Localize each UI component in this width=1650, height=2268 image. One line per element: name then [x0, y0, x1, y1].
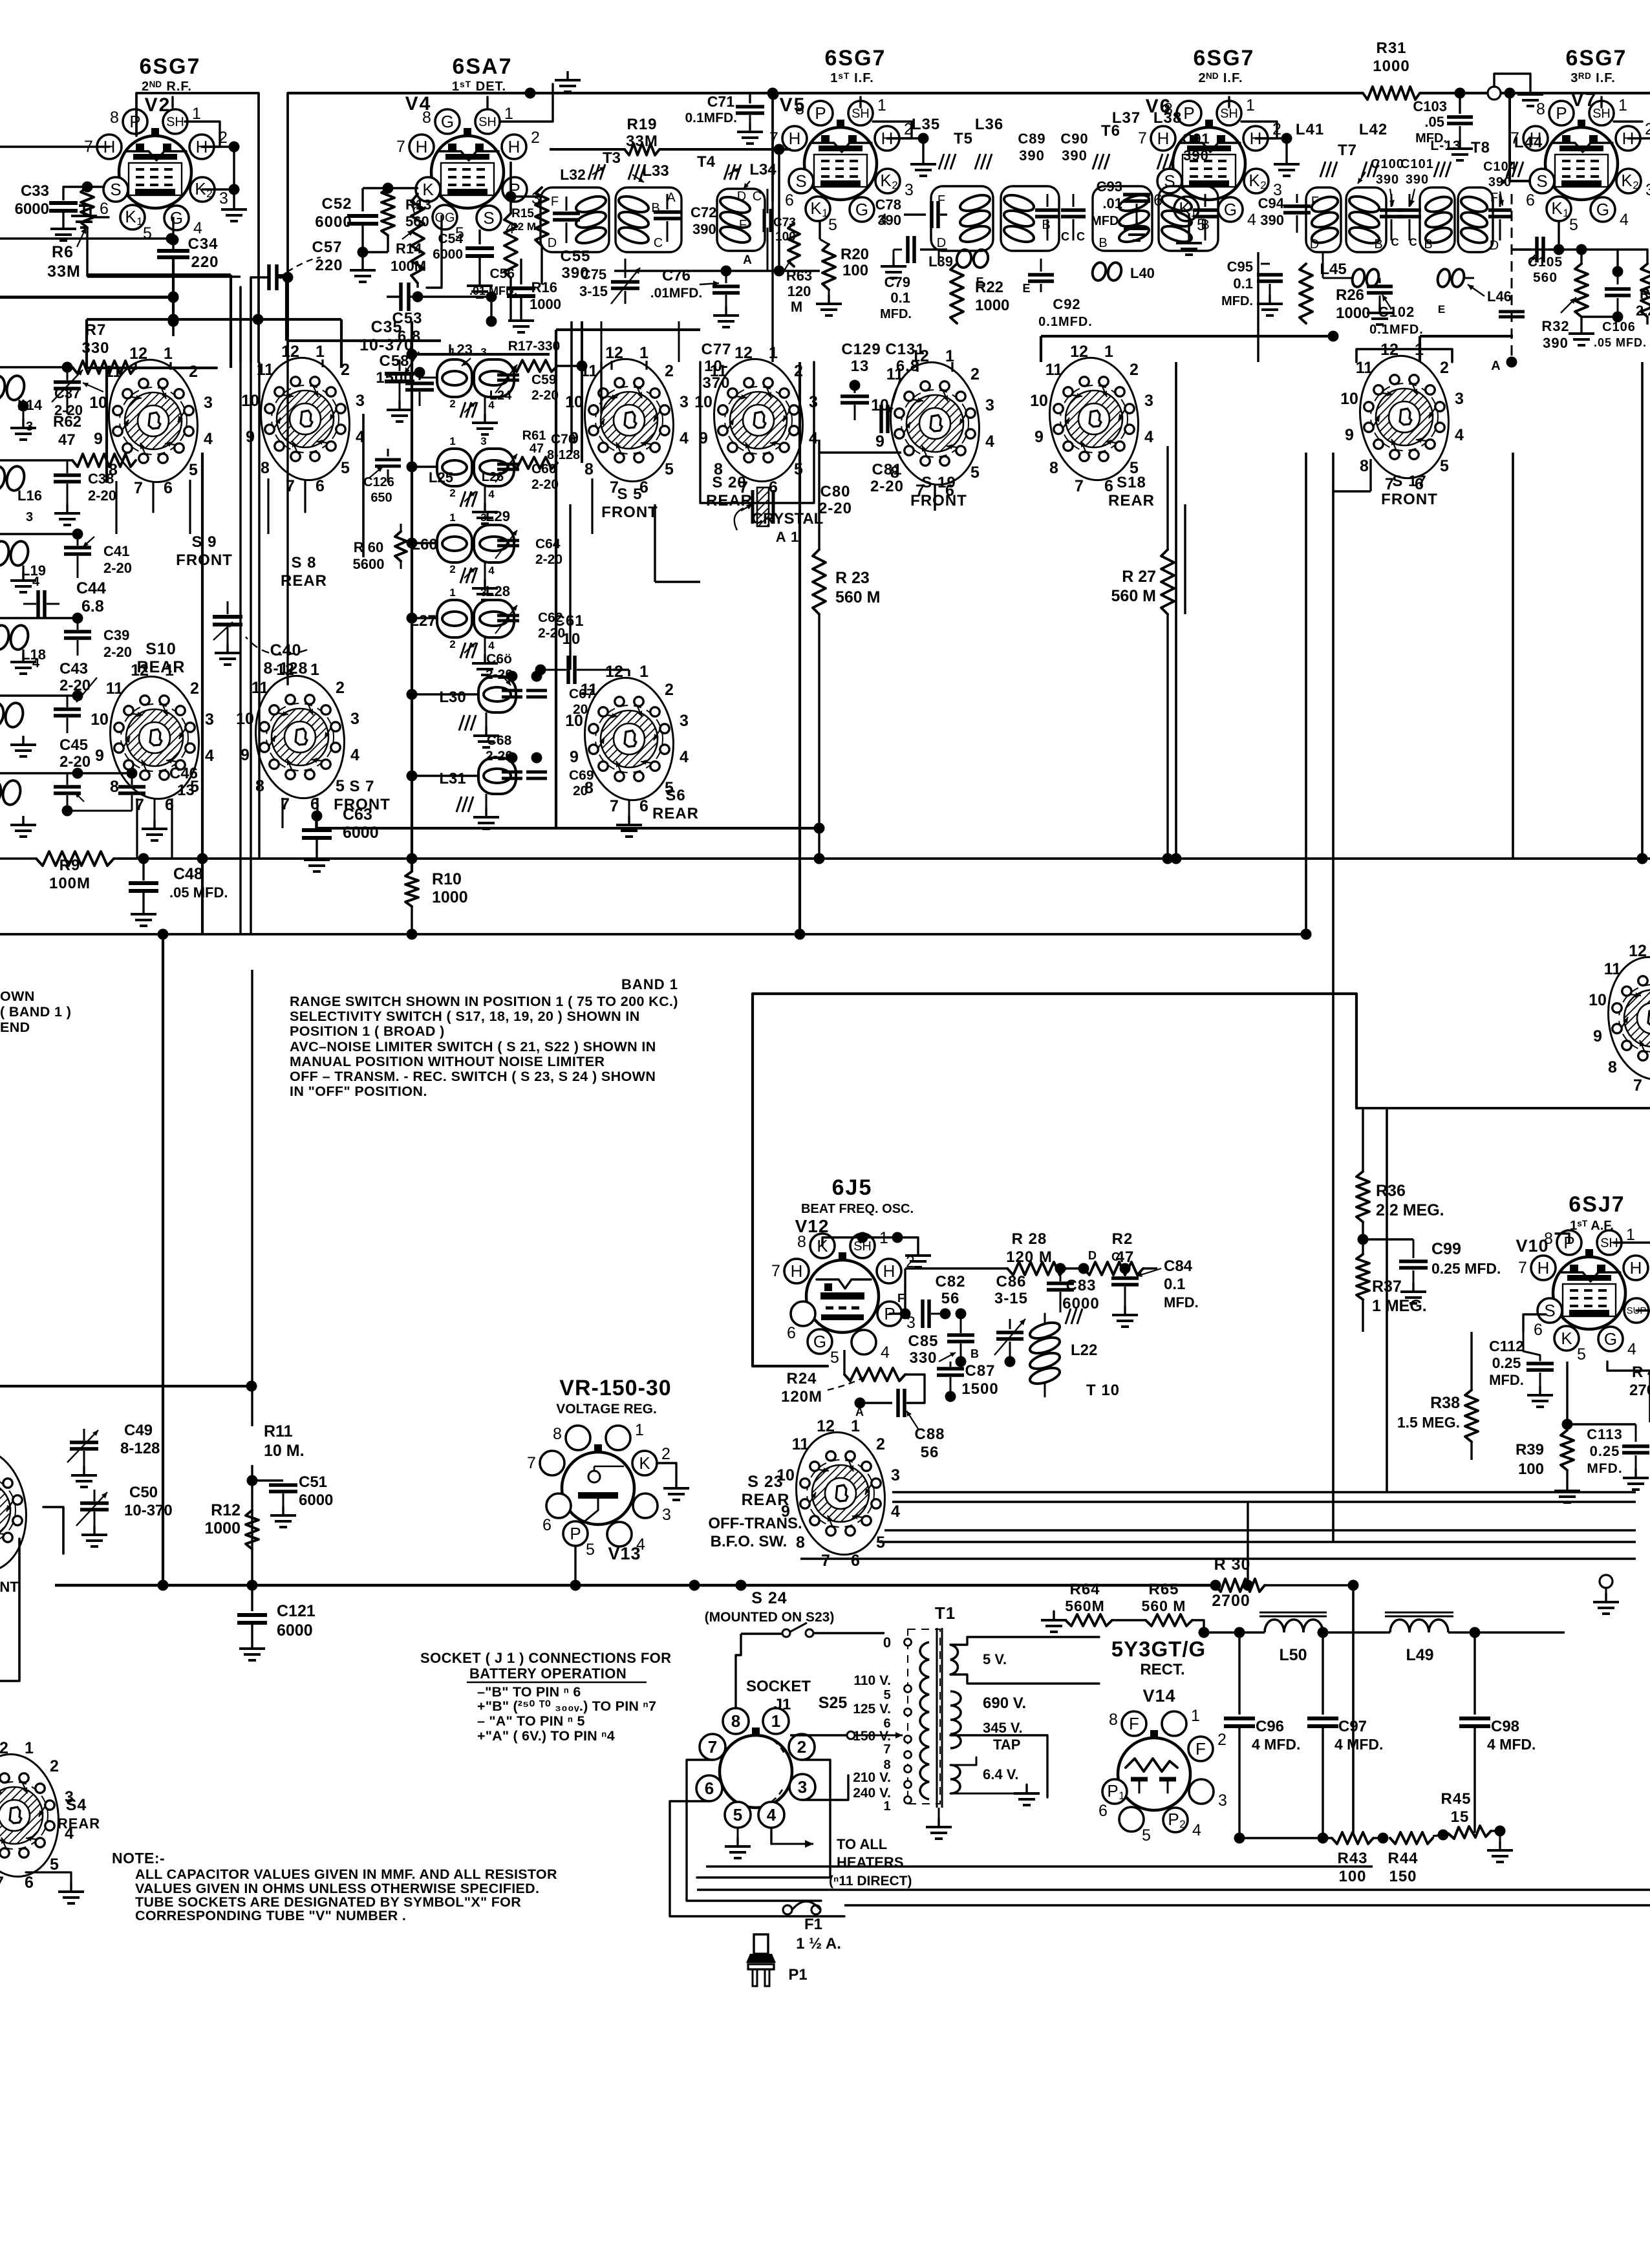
svg-text:S 5: S 5 — [617, 486, 642, 503]
svg-text:5: 5 — [665, 460, 674, 478]
svg-text:C80: C80 — [820, 483, 850, 500]
svg-text:390: 390 — [1543, 335, 1569, 351]
svg-text:1: 1 — [1104, 343, 1113, 361]
svg-text:FRONT: FRONT — [176, 551, 233, 569]
svg-text:L35: L35 — [912, 116, 940, 133]
svg-text:11: 11 — [106, 679, 123, 698]
svg-text:MFD.: MFD. — [1164, 1294, 1199, 1311]
capacitor C100 sym — [1391, 194, 1393, 207]
svg-text:R65: R65 — [1148, 1581, 1179, 1598]
svg-text:L28: L28 — [486, 583, 510, 599]
svg-text:5: 5 — [1142, 1826, 1151, 1845]
svg-text:A: A — [855, 1406, 864, 1418]
svg-text:2: 2 — [50, 1757, 59, 1775]
svg-text:9: 9 — [95, 747, 104, 765]
svg-text:560 M: 560 M — [1142, 1598, 1186, 1614]
svg-text:.05: .05 — [1424, 114, 1444, 130]
svg-text:MANUAL POSITION WITHOUT NOI: MANUAL POSITION WITHOUT NOISE LIMITER — [290, 1054, 605, 1069]
svg-text:OFF-TRANS.: OFF-TRANS. — [708, 1515, 802, 1532]
svg-text:BAND 1: BAND 1 — [621, 976, 678, 992]
svg-text:C106: C106 — [1602, 320, 1636, 334]
svg-text:1: 1 — [639, 344, 648, 362]
svg-text:F: F — [1311, 195, 1319, 209]
svg-text:3: 3 — [480, 435, 486, 447]
wire S18 drop — [1093, 481, 1095, 511]
svg-text:2: 2 — [449, 487, 455, 499]
svg-text:C50: C50 — [129, 1484, 158, 1501]
wire x2062 lower — [1332, 1492, 1334, 1542]
svg-text:H: H — [416, 137, 428, 156]
svg-text:F: F — [551, 195, 559, 209]
transformer L25 L26 pair — [437, 449, 472, 486]
svg-text:S 23: S 23 — [747, 1473, 783, 1491]
svg-text:FRONT: FRONT — [910, 492, 967, 509]
svg-text:REAR: REAR — [1108, 492, 1155, 509]
svg-text:1: 1 — [136, 215, 142, 228]
svg-text:V13: V13 — [608, 1544, 641, 1563]
svg-text:560M: 560M — [1065, 1598, 1105, 1614]
svg-text:C33: C33 — [21, 182, 49, 200]
coil C43 trim — [0, 701, 6, 729]
svg-text:4: 4 — [32, 656, 40, 670]
svg-text:C63: C63 — [343, 806, 372, 824]
wire wafer stubs S8 — [286, 359, 288, 367]
svg-text:6: 6 — [1526, 191, 1535, 209]
svg-text:C: C — [1077, 230, 1086, 243]
svg-text:C91: C91 — [1182, 131, 1210, 147]
svg-text:L42: L42 — [1359, 121, 1387, 138]
svg-text:H: H — [791, 1261, 803, 1281]
svg-text:5: 5 — [883, 1688, 890, 1702]
svg-text:56: 56 — [941, 1290, 960, 1307]
svg-text:6000: 6000 — [277, 1621, 313, 1640]
svg-text:C48: C48 — [173, 865, 203, 883]
wire H7 left — [0, 145, 109, 147]
transformer T4 box — [717, 189, 765, 251]
svg-text:ALL CAPACITOR VALUES GIVEN IN: ALL CAPACITOR VALUES GIVEN IN MMF. AND A… — [135, 1867, 557, 1882]
dashed line A — [1511, 194, 1513, 359]
svg-text:4: 4 — [488, 488, 495, 500]
svg-text:D: D — [1088, 1249, 1097, 1262]
svg-text:K: K — [1248, 171, 1260, 190]
svg-text:2-20: 2-20 — [870, 478, 904, 495]
svg-text:47: 47 — [530, 442, 544, 456]
svg-text:120M: 120M — [781, 1388, 822, 1406]
wire top area verticals — [600, 362, 602, 414]
svg-text:2: 2 — [531, 129, 540, 147]
svg-text:F: F — [897, 1292, 905, 1305]
svg-text:L37: L37 — [1112, 109, 1141, 127]
svg-text:B: B — [1042, 218, 1050, 232]
transformer L23 L24 pair — [437, 359, 472, 397]
svg-text:2: 2 — [1633, 179, 1638, 191]
svg-text:4: 4 — [985, 433, 994, 451]
svg-text:R19: R19 — [627, 116, 657, 133]
svg-text:C: C — [753, 189, 762, 204]
svg-text:5600: 5600 — [353, 556, 385, 572]
svg-text:0.1: 0.1 — [1164, 1276, 1185, 1293]
svg-text:2-20: 2-20 — [535, 552, 562, 567]
svg-text:V5: V5 — [780, 94, 806, 116]
svg-text:K: K — [1621, 171, 1633, 190]
wire mesh i — [1420, 335, 1513, 337]
transformer T6b box — [1159, 186, 1218, 251]
ground L14 — [18, 401, 29, 412]
svg-text:R 28: R 28 — [1012, 1230, 1047, 1248]
svg-text:V12: V12 — [795, 1216, 830, 1236]
svg-text:6: 6 — [25, 1874, 34, 1892]
wire vertical V2-V4 group — [232, 321, 233, 854]
wire wafer stubs S7 — [281, 798, 283, 828]
svg-text:L16: L16 — [17, 487, 42, 504]
bus line lower — [0, 933, 1306, 936]
wire K1 gnd — [91, 206, 109, 217]
svg-text:F: F — [1195, 1739, 1206, 1759]
svg-text:20: 20 — [573, 784, 588, 798]
ground circle right — [1600, 1575, 1612, 1588]
svg-text:560 M: 560 M — [1111, 587, 1156, 605]
resistor R33 — [1641, 264, 1650, 317]
T1 sec 6.4V — [950, 1765, 960, 1793]
svg-text:10-370: 10-370 — [359, 336, 414, 354]
svg-text:6SA7: 6SA7 — [452, 54, 512, 79]
svg-text:11: 11 — [1045, 361, 1063, 379]
svg-text:5: 5 — [828, 216, 837, 234]
svg-text:2-20: 2-20 — [538, 626, 565, 641]
ground top right — [1494, 74, 1530, 87]
svg-text:5: 5 — [586, 1541, 595, 1559]
ground S4 — [26, 1872, 71, 1883]
svg-text:C81: C81 — [872, 461, 902, 478]
transformer T5 box — [931, 186, 993, 251]
svg-text:C100: C100 — [1371, 157, 1404, 171]
bus S23 wires — [892, 1491, 1636, 1493]
svg-text:0.1MFD.: 0.1MFD. — [685, 111, 737, 125]
svg-text:D: D — [548, 236, 557, 250]
svg-text:3: 3 — [219, 189, 228, 208]
svg-text:9: 9 — [1345, 426, 1354, 444]
wire V4 SH gnd — [486, 97, 488, 107]
svg-text:S: S — [110, 180, 121, 199]
svg-text:6: 6 — [785, 191, 794, 209]
wire band verticals — [201, 453, 204, 934]
svg-text:0.1: 0.1 — [890, 290, 910, 306]
wire mesh c — [87, 318, 258, 321]
svg-text:6.8: 6.8 — [896, 358, 919, 375]
svg-text:8: 8 — [1536, 100, 1545, 118]
svg-text:F: F — [1129, 1714, 1139, 1733]
svg-text:VOLTAGE REG.: VOLTAGE REG. — [556, 1402, 657, 1417]
svg-text:9: 9 — [241, 746, 250, 764]
capacitor C55 in T3 — [566, 197, 568, 211]
wire S23 to V13 bus — [252, 1585, 575, 1586]
svg-text:2-20: 2-20 — [531, 388, 559, 403]
svg-text:C83: C83 — [1066, 1277, 1096, 1294]
wire S9 frame — [107, 368, 217, 482]
svg-text:H: H — [789, 129, 801, 148]
svg-text:7: 7 — [1138, 129, 1147, 147]
wire mesh f — [412, 353, 550, 356]
svg-text:B: B — [1098, 236, 1107, 250]
svg-text:4 MFD.: 4 MFD. — [1487, 1736, 1536, 1753]
svg-text:V4: V4 — [405, 93, 432, 114]
svg-text:7: 7 — [0, 1874, 4, 1892]
svg-text:R39: R39 — [1516, 1441, 1544, 1459]
svg-text:3ᴿᴰ I.F.: 3ᴿᴰ I.F. — [1570, 71, 1616, 85]
svg-text:1: 1 — [883, 1799, 890, 1813]
svg-text:1: 1 — [851, 1417, 860, 1435]
svg-text:10: 10 — [565, 393, 583, 411]
wire R11 bot — [251, 1465, 253, 1585]
svg-text:R10: R10 — [432, 870, 462, 888]
svg-text:12: 12 — [1070, 343, 1088, 361]
T1 sec 5V — [950, 1645, 958, 1674]
svg-text:R6: R6 — [52, 243, 74, 261]
wire wafer stubs S10 — [136, 798, 138, 859]
svg-text:C92: C92 — [1053, 296, 1080, 312]
svg-text:G: G — [1224, 200, 1237, 219]
svg-text:R64: R64 — [1069, 1581, 1100, 1598]
svg-text:1000: 1000 — [204, 1519, 241, 1537]
svg-text:R17-330: R17-330 — [508, 339, 561, 354]
wire V6 H2 gnd — [1256, 137, 1287, 139]
svg-text:3: 3 — [1144, 392, 1153, 410]
svg-text:6: 6 — [705, 1779, 714, 1798]
svg-text:P: P — [570, 1524, 581, 1543]
svg-text:C104: C104 — [1483, 160, 1517, 174]
wire V2 H2 to gnd — [202, 145, 234, 147]
svg-text:1000: 1000 — [1336, 305, 1370, 322]
capacitor C97 — [1322, 1632, 1323, 1715]
svg-text:P1: P1 — [788, 1966, 807, 1984]
svg-text:330: 330 — [909, 1349, 937, 1367]
svg-text:R16: R16 — [531, 279, 557, 295]
svg-text:4 MFD.: 4 MFD. — [1252, 1736, 1300, 1753]
svg-text:12: 12 — [276, 661, 294, 679]
resistor R6 — [81, 187, 94, 228]
svg-text:C78: C78 — [875, 197, 901, 213]
svg-text:B: B — [1424, 237, 1432, 251]
svg-text:2: 2 — [189, 363, 198, 381]
svg-text:2: 2 — [1440, 359, 1449, 377]
svg-text:7: 7 — [527, 1454, 536, 1472]
svg-text:V2: V2 — [145, 94, 171, 116]
svg-text:5: 5 — [336, 777, 345, 795]
svg-text:6: 6 — [851, 1552, 860, 1570]
svg-text:C40: C40 — [270, 641, 302, 659]
wire V12 top — [822, 1237, 897, 1246]
svg-text:C45: C45 — [59, 736, 88, 754]
svg-text:H: H — [508, 137, 520, 156]
svg-text:T7: T7 — [1338, 142, 1357, 159]
svg-text:1: 1 — [1119, 1790, 1124, 1802]
switch S6 — [578, 672, 680, 805]
svg-text:C82: C82 — [935, 1273, 965, 1290]
svg-text:345 V.: 345 V. — [983, 1720, 1023, 1736]
svg-text:12: 12 — [605, 344, 623, 362]
wire J1 pin1-s25 — [789, 1730, 790, 1735]
socket J1 pins — [723, 1708, 749, 1734]
svg-text:C59: C59 — [531, 372, 557, 387]
svg-text:L25: L25 — [429, 469, 453, 486]
svg-text:P: P — [1168, 1810, 1179, 1829]
svg-text:P: P — [1183, 103, 1194, 123]
svg-text:1: 1 — [192, 105, 201, 123]
resistor R13 — [381, 188, 394, 235]
svg-text:560: 560 — [1533, 270, 1558, 285]
svg-text:7: 7 — [821, 1552, 830, 1570]
choke L50 — [1265, 1620, 1323, 1632]
svg-text:2: 2 — [665, 681, 674, 699]
svg-text:P: P — [1107, 1781, 1118, 1801]
svg-text:3: 3 — [350, 710, 359, 728]
svg-text:A: A — [743, 253, 752, 267]
svg-text:9: 9 — [1593, 1027, 1602, 1045]
svg-text:390: 390 — [1019, 147, 1045, 164]
svg-text:FRONT: FRONT — [1381, 491, 1438, 508]
switch S23 — [789, 1427, 892, 1559]
svg-text:8: 8 — [1360, 457, 1369, 475]
svg-text:R43: R43 — [1337, 1850, 1367, 1867]
svg-text:6.8: 6.8 — [81, 597, 104, 615]
svg-text:12: 12 — [1629, 942, 1647, 960]
transformer T7 box L41 — [1306, 187, 1341, 252]
svg-text:2: 2 — [665, 362, 674, 380]
svg-text:V14: V14 — [1142, 1686, 1175, 1706]
svg-text:0.25: 0.25 — [1590, 1443, 1620, 1459]
box T10 — [753, 994, 1356, 1366]
svg-text:100M: 100M — [391, 258, 426, 274]
wire column joins — [411, 321, 413, 872]
svg-text:5: 5 — [189, 461, 198, 479]
svg-text:.01: .01 — [1102, 195, 1122, 211]
svg-text:2: 2 — [892, 179, 897, 191]
svg-text:L34: L34 — [749, 161, 777, 178]
svg-text:G: G — [813, 1332, 826, 1351]
coil L31 unit — [478, 758, 516, 794]
svg-text:6000: 6000 — [433, 247, 463, 262]
tube V14 — [1118, 1738, 1190, 1810]
svg-text:R44: R44 — [1387, 1850, 1418, 1867]
svg-text:100M: 100M — [49, 875, 91, 892]
svg-text:1: 1 — [504, 105, 513, 123]
svg-text:9: 9 — [94, 430, 103, 448]
transformer T3 box L32 — [541, 187, 609, 252]
svg-text:L30: L30 — [439, 689, 466, 706]
svg-text:9: 9 — [875, 433, 884, 451]
svg-text:2ᴺᴰ I.F.: 2ᴺᴰ I.F. — [1198, 71, 1243, 85]
svg-text:C: C — [1061, 230, 1070, 243]
svg-text:0.25: 0.25 — [1492, 1354, 1521, 1371]
wire V10 SUP — [1636, 1309, 1650, 1311]
ground J1 pin5 — [737, 1828, 739, 1837]
coil L18 — [0, 623, 11, 651]
svg-text:4: 4 — [767, 1805, 777, 1824]
svg-text:12: 12 — [605, 663, 623, 681]
svg-text:1000: 1000 — [975, 297, 1009, 314]
svg-text:10-370: 10-370 — [124, 1502, 173, 1519]
svg-text:5 V.: 5 V. — [983, 1651, 1007, 1667]
wire mesh g — [556, 328, 700, 331]
capacitor C34 — [172, 240, 174, 249]
svg-text:SH: SH — [852, 107, 870, 121]
svg-text:H: H — [1630, 1258, 1642, 1278]
wire V10 top — [1556, 1234, 1569, 1243]
svg-text:1: 1 — [310, 661, 319, 679]
svg-text:SH: SH — [166, 115, 184, 129]
capacitor C72 — [667, 194, 669, 209]
wire V4 box left — [286, 93, 289, 362]
svg-text:R63: R63 — [786, 268, 812, 284]
svg-text:47: 47 — [58, 431, 76, 449]
svg-text:6: 6 — [164, 479, 173, 497]
tube V4 — [431, 136, 504, 208]
svg-text:2-20: 2-20 — [531, 477, 559, 492]
svg-text:10 M.: 10 M. — [264, 1442, 305, 1460]
svg-text:4: 4 — [193, 219, 202, 237]
wire V5 drop — [771, 93, 774, 200]
wire S5 bottom drops — [569, 504, 571, 670]
svg-text:8: 8 — [731, 1711, 740, 1731]
svg-text:1 MEG.: 1 MEG. — [1372, 1297, 1427, 1315]
svg-text:F1: F1 — [804, 1916, 822, 1933]
svg-text:AVC–NOISE LIMITER SWITCH (: AVC–NOISE LIMITER SWITCH ( S 21, S22 ) S… — [290, 1039, 656, 1054]
svg-text:SH: SH — [1220, 107, 1238, 121]
svg-text:6SG7: 6SG7 — [825, 46, 886, 70]
svg-text:HEATERS: HEATERS — [837, 1854, 904, 1870]
svg-text:C: C — [1391, 236, 1399, 248]
svg-text:BEAT FREQ. OSC.: BEAT FREQ. OSC. — [801, 1202, 914, 1216]
wire T5 bottoms — [938, 251, 940, 264]
svg-text:C37: C37 — [54, 385, 80, 401]
svg-text:5: 5 — [733, 1805, 742, 1824]
svg-text:1: 1 — [1191, 1707, 1200, 1725]
svg-text:1.5 MEG.: 1.5 MEG. — [1397, 1414, 1460, 1431]
svg-text:3: 3 — [480, 346, 486, 358]
svg-text:5: 5 — [1577, 1345, 1586, 1364]
svg-text:5: 5 — [1569, 216, 1578, 234]
svg-text:R 4: R 4 — [1632, 1364, 1650, 1381]
svg-text:5: 5 — [50, 1856, 59, 1874]
svg-text:390: 390 — [692, 221, 716, 237]
svg-text:R24: R24 — [786, 1370, 817, 1387]
coil C45 trim — [0, 778, 3, 806]
svg-text:390: 390 — [1488, 175, 1512, 189]
svg-text:R7: R7 — [85, 321, 107, 339]
svg-text:0.1: 0.1 — [1233, 275, 1253, 292]
svg-text:390: 390 — [1376, 173, 1399, 187]
coil L16 — [0, 464, 7, 492]
svg-text:12: 12 — [817, 1417, 835, 1435]
svg-text:L50: L50 — [1279, 1646, 1307, 1664]
svg-text:MFD.: MFD. — [880, 307, 912, 321]
wire S7 bus — [315, 816, 317, 828]
svg-text:T5: T5 — [954, 130, 973, 147]
svg-text:S 24: S 24 — [751, 1589, 787, 1607]
svg-text:L24: L24 — [489, 389, 512, 403]
svg-text:11: 11 — [1356, 359, 1373, 377]
svg-text:1: 1 — [449, 586, 455, 599]
transformer L27 L28 pair — [437, 600, 472, 637]
svg-text:R32: R32 — [1541, 318, 1569, 334]
svg-text:2: 2 — [1217, 1731, 1227, 1749]
svg-text:C87: C87 — [965, 1362, 995, 1380]
svg-text:D: D — [1490, 239, 1499, 253]
svg-text:6.4 V.: 6.4 V. — [983, 1766, 1018, 1782]
svg-text:S 9: S 9 — [191, 533, 217, 551]
svg-text:7: 7 — [610, 797, 619, 815]
svg-text:6: 6 — [639, 797, 648, 815]
